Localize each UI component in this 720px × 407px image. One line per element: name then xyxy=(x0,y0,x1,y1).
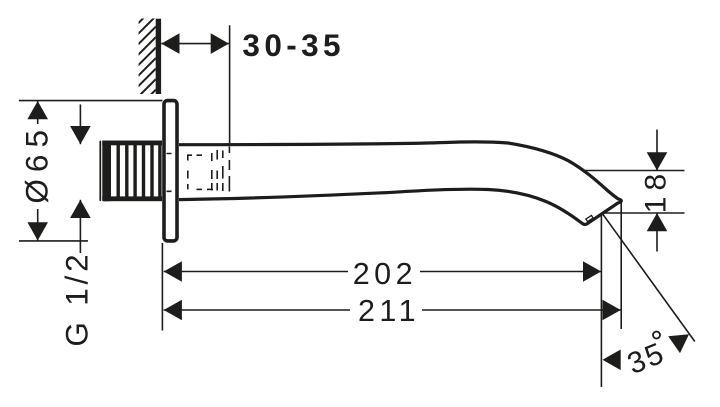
wall hatching xyxy=(136,6,156,110)
escutcheon flange xyxy=(164,101,177,241)
dimension 211 xyxy=(164,309,621,311)
dimension G1/2 xyxy=(79,104,81,253)
dimension D65 xyxy=(19,101,163,241)
aerator notch at spout tip xyxy=(586,215,593,221)
svg-text:Ø65: Ø65 xyxy=(19,123,55,204)
threaded pipe G1/2 xyxy=(100,141,162,202)
svg-text:211: 211 xyxy=(358,294,420,328)
extension lines right xyxy=(162,203,621,388)
spout body outline xyxy=(179,142,621,225)
hidden ticks inside flange xyxy=(167,154,172,192)
svg-text:30-35: 30-35 xyxy=(242,27,345,63)
35 degree angle xyxy=(603,214,695,341)
hidden socket outline (dashed) xyxy=(188,155,213,189)
svg-text:202: 202 xyxy=(353,257,417,291)
hidden thread lines (dashed verticals) xyxy=(212,147,230,192)
wall face xyxy=(156,19,161,94)
dimension 30-35 xyxy=(161,25,229,143)
dimension 202 xyxy=(164,271,602,273)
dimension 18 xyxy=(584,130,685,252)
svg-text:18: 18 xyxy=(640,168,673,213)
svg-text:G 1/2: G 1/2 xyxy=(58,251,94,347)
